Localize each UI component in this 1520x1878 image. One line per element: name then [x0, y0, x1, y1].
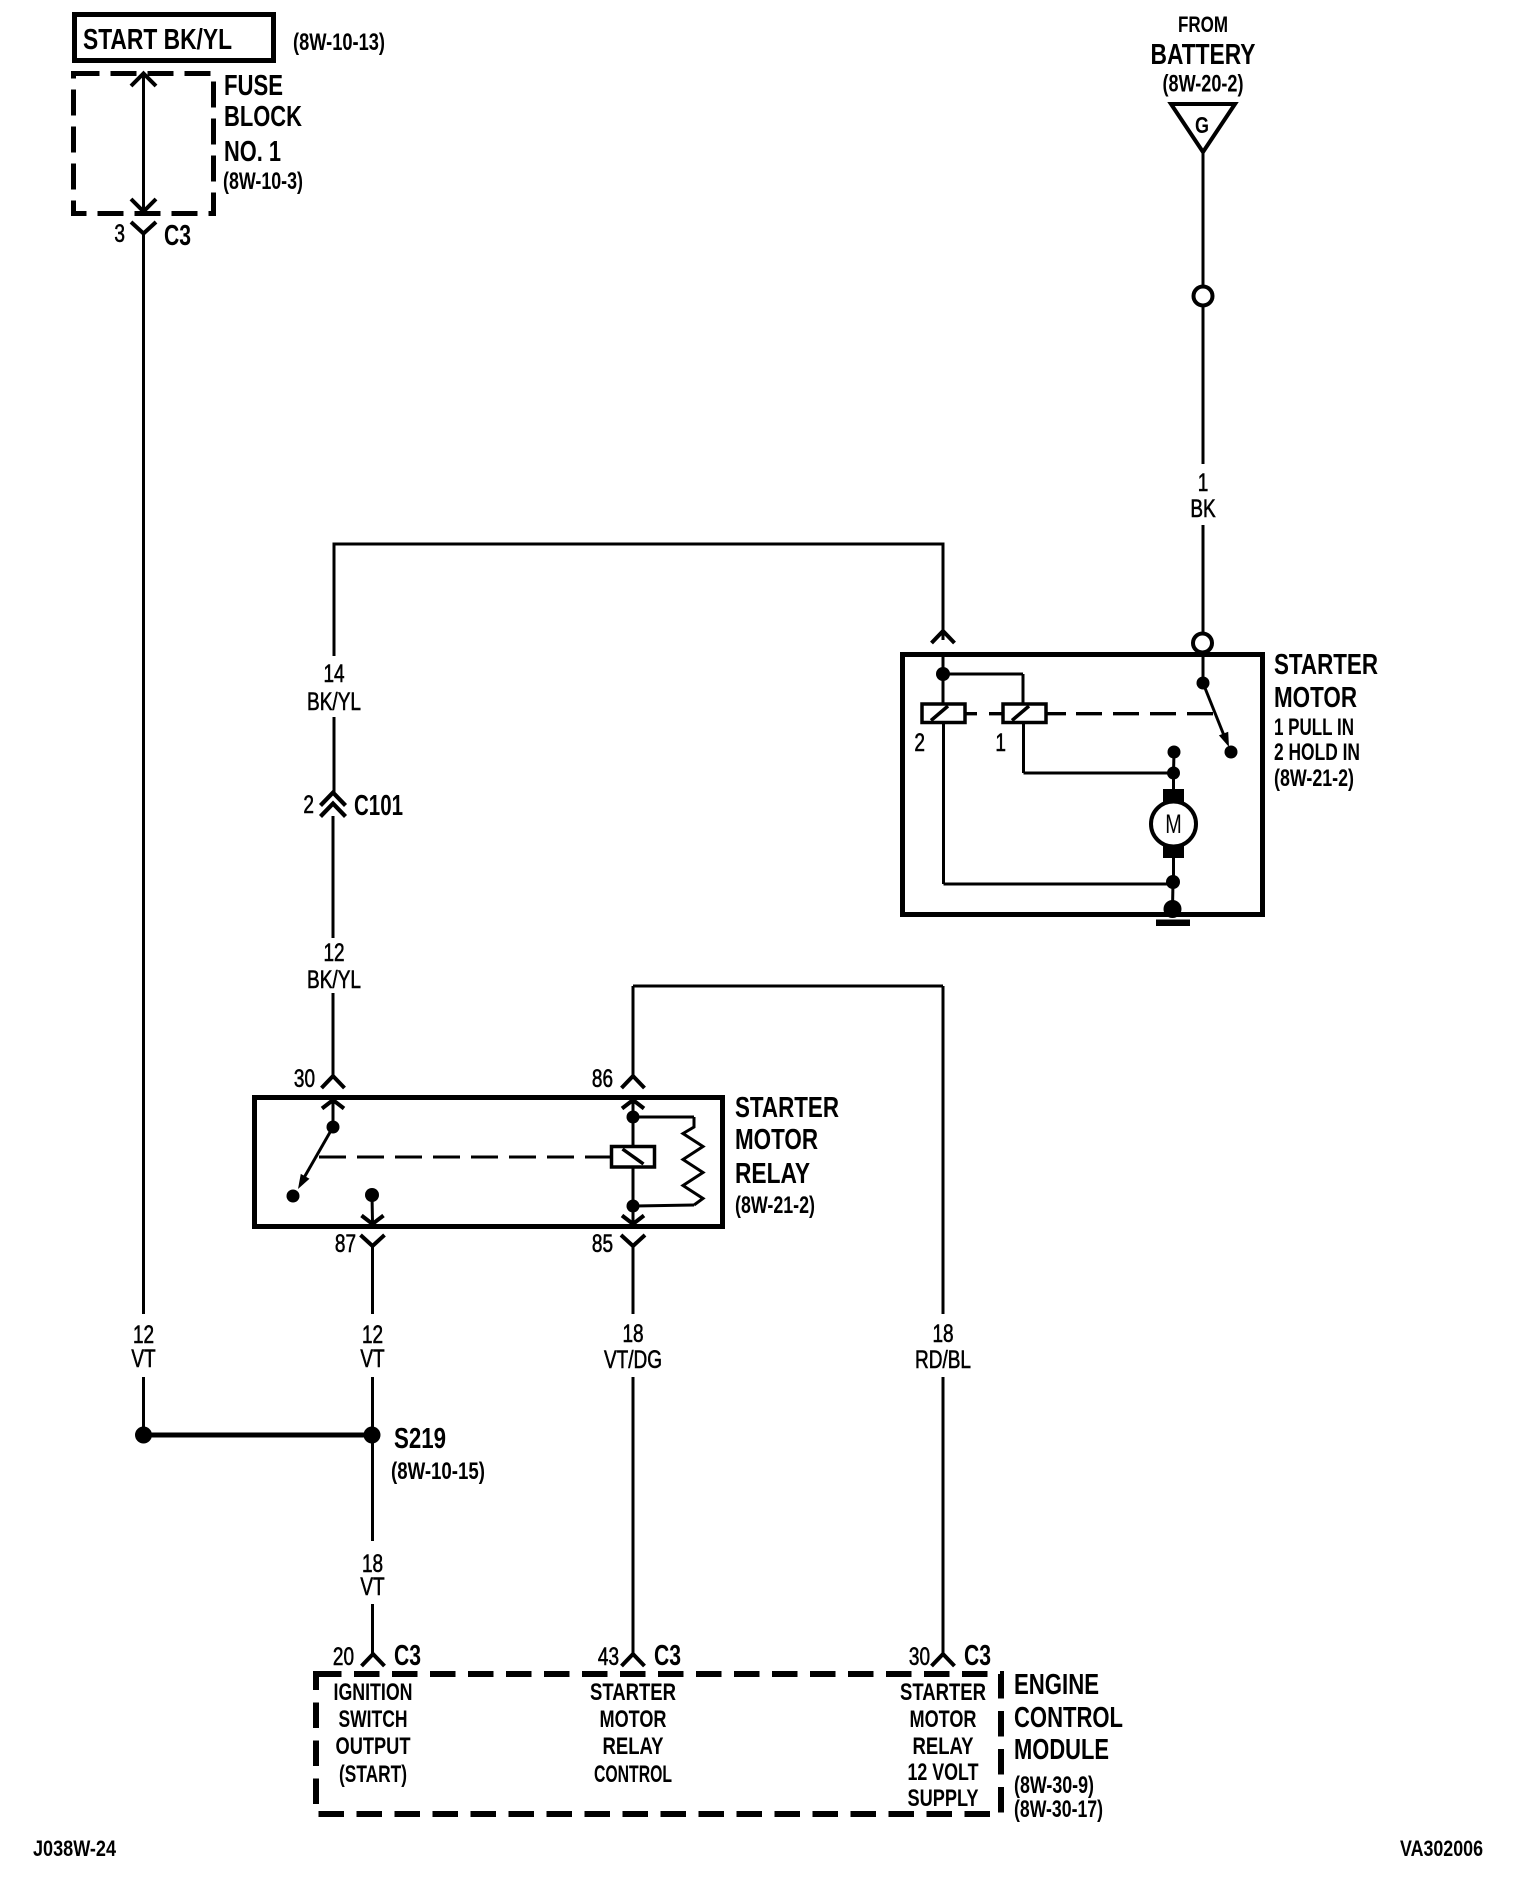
svg-text:C101: C101	[354, 790, 403, 822]
svg-text:VT: VT	[360, 1573, 384, 1601]
svg-text:STARTER: STARTER	[900, 1679, 986, 1706]
svg-text:(8W-30-17): (8W-30-17)	[1014, 1796, 1103, 1823]
wire: down into coil 2	[942, 674, 945, 704]
dashed actuator link from relay coil to switch arm	[318, 1156, 612, 1159]
svg-text:(8W-21-2): (8W-21-2)	[735, 1192, 815, 1219]
motor M brush (bottom)	[1163, 845, 1184, 858]
relay switch pivot dot	[327, 1121, 340, 1134]
svg-text:43: 43	[598, 1643, 619, 1671]
wire: continues to splice dot	[142, 1377, 145, 1430]
svg-text:MOTOR: MOTOR	[1274, 682, 1357, 714]
svg-text:BK: BK	[1190, 495, 1216, 523]
svg-text:CONTROL: CONTROL	[594, 1761, 672, 1788]
wire: battery feed down	[1202, 152, 1205, 286]
svg-text:BK/YL: BK/YL	[307, 688, 361, 716]
starter motor component box	[903, 655, 1263, 915]
wire: motor return	[1172, 858, 1175, 882]
fuse element arrow line inside fuse block	[142, 74, 145, 211]
wire: down to relay pin 30	[332, 993, 335, 1076]
splice S219 dot	[364, 1427, 381, 1444]
connector at ECM pin 20	[362, 1654, 385, 1666]
svg-text:85: 85	[592, 1230, 613, 1258]
wire: pin2 feed inside box to junction	[942, 657, 945, 674]
wire: C101 down (12 BK/YL)	[332, 816, 335, 938]
engine control module dashed box	[316, 1674, 1001, 1814]
svg-text:12: 12	[323, 939, 344, 967]
svg-text:IGNITION: IGNITION	[334, 1679, 413, 1706]
junction dot left end of S219 bus	[135, 1427, 152, 1444]
wire: coil 2 return down left side	[942, 723, 945, 885]
svg-text:(8W-10-15): (8W-10-15)	[391, 1458, 485, 1485]
svg-text:3: 3	[114, 220, 125, 248]
svg-text:ENGINE: ENGINE	[1014, 1669, 1099, 1701]
wire: down to ECM pin 30	[942, 1377, 945, 1654]
relay switch open contact dot	[287, 1190, 300, 1203]
svg-text:STARTER: STARTER	[590, 1679, 676, 1706]
connector at relay pin 86	[622, 1076, 645, 1088]
junction dot feeding both solenoid coils	[936, 667, 950, 681]
svg-text:VT: VT	[360, 1345, 384, 1373]
inline connector ring on battery wire	[1194, 287, 1213, 306]
starter motor relay component box	[255, 1098, 723, 1227]
wire: ring terminal to starter switch pivot	[1202, 653, 1205, 683]
svg-text:VT: VT	[131, 1345, 155, 1373]
svg-text:RELAY: RELAY	[603, 1733, 664, 1760]
svg-text:RELAY: RELAY	[913, 1733, 974, 1760]
svg-text:SWITCH: SWITCH	[339, 1706, 408, 1733]
connector below relay pin 87	[361, 1235, 385, 1246]
svg-text:VA302006: VA302006	[1400, 1836, 1483, 1861]
junction dot relay coil top	[627, 1111, 640, 1124]
starter switch arm	[1203, 683, 1225, 738]
wire: down to connector C101	[333, 717, 336, 793]
relay pin 87 contact dot	[365, 1188, 379, 1202]
svg-text:86: 86	[592, 1065, 613, 1093]
wire: to motor brush	[1172, 773, 1175, 790]
svg-text:STARTER: STARTER	[1274, 649, 1378, 681]
svg-text:(START): (START)	[339, 1761, 407, 1788]
svg-text:2: 2	[914, 729, 925, 757]
arrowhead at relay pin 85 (inside box)	[622, 1216, 644, 1225]
ring terminal at starter motor box	[1193, 634, 1212, 653]
svg-text:MODULE: MODULE	[1014, 1734, 1109, 1766]
motor M brush (top)	[1163, 789, 1184, 802]
wire: coil 1 return	[1022, 723, 1025, 774]
connector below relay pin 85	[621, 1235, 645, 1246]
wire: fuse block C3 pin3 down to splice (12 VT)	[142, 247, 145, 1314]
svg-text:C3: C3	[164, 220, 191, 252]
svg-text:1: 1	[1198, 469, 1209, 497]
svg-text:C3: C3	[964, 1640, 991, 1672]
svg-text:OUTPUT: OUTPUT	[336, 1733, 411, 1760]
svg-text:(8W-10-13): (8W-10-13)	[293, 29, 385, 56]
svg-text:87: 87	[335, 1230, 356, 1258]
junction dot motor return / coil2 return	[1166, 875, 1180, 889]
svg-text:RD/BL: RD/BL	[915, 1346, 971, 1374]
wire: branch to coil 1	[943, 673, 1023, 676]
svg-text:FUSE: FUSE	[224, 70, 283, 102]
connector arrow at starter motor box pin 2 feed	[932, 631, 955, 643]
wire: S219 down (18 VT)	[371, 1435, 374, 1541]
solenoid coil 1 (pull in)	[1003, 704, 1046, 723]
solenoid coil 2 (hold in)	[922, 704, 965, 723]
svg-text:M: M	[1165, 809, 1182, 839]
svg-text:BLOCK: BLOCK	[224, 101, 302, 133]
svg-text:BK/YL: BK/YL	[307, 966, 361, 994]
svg-text:FROM: FROM	[1178, 12, 1228, 37]
connector at ECM pin 43	[622, 1654, 645, 1666]
svg-text:G: G	[1195, 112, 1209, 138]
relay switch arm (to pin 87a side)	[301, 1127, 333, 1183]
svg-text:C3: C3	[394, 1640, 421, 1672]
svg-text:MOTOR: MOTOR	[735, 1124, 818, 1156]
wire: pin 86 to coil	[632, 1100, 635, 1117]
arrowhead inside relay pin 86	[622, 1100, 644, 1109]
relay coil	[612, 1147, 655, 1168]
junction dot coil1 return / motor feed	[1167, 767, 1180, 780]
power source symbol G (from battery) triangle	[1171, 104, 1235, 152]
svg-text:30: 30	[909, 1643, 930, 1671]
wire: battery feed continues	[1202, 306, 1205, 464]
wire: horizontal run from C101 branch to starter motor pin 2	[334, 543, 943, 546]
connector at ECM pin 30	[932, 1654, 955, 1666]
ground symbol at starter motor case	[1164, 900, 1182, 918]
svg-text:CONTROL: CONTROL	[1014, 1702, 1123, 1734]
suppression resistor across relay coil	[633, 1116, 694, 1119]
starter switch pivot dot	[1197, 677, 1210, 690]
fuse block no.1 dashed box	[74, 74, 214, 214]
svg-text:MOTOR: MOTOR	[910, 1706, 977, 1733]
svg-text:20: 20	[333, 1643, 354, 1671]
starter switch closed contact dot	[1225, 746, 1238, 759]
wire: ECM pin30 supply up and across to relay pin 86	[632, 986, 635, 1076]
junction dot relay coil bottom	[627, 1200, 640, 1213]
svg-text:(8W-10-3): (8W-10-3)	[223, 168, 303, 195]
arrowhead at relay pin 87 (inside box)	[362, 1216, 384, 1225]
svg-text:1 PULL IN: 1 PULL IN	[1274, 714, 1354, 741]
svg-text:NO. 1: NO. 1	[224, 136, 281, 168]
dashed mechanical link from coils to switch	[965, 712, 977, 715]
svg-text:2: 2	[303, 791, 314, 819]
wire: relay pin 87 down (12 VT)	[371, 1261, 374, 1314]
svg-text:STARTER: STARTER	[735, 1092, 839, 1124]
wire: splice bus to S219	[144, 1433, 373, 1438]
wire: relay coil bottom	[632, 1166, 635, 1206]
svg-text:(8W-20-2): (8W-20-2)	[1163, 71, 1244, 98]
svg-text:1: 1	[995, 729, 1006, 757]
svg-text:BATTERY: BATTERY	[1151, 39, 1256, 71]
wire: pin 85 down to box edge	[632, 1206, 635, 1222]
svg-text:MOTOR: MOTOR	[600, 1706, 667, 1733]
svg-text:START BK/YL: START BK/YL	[83, 24, 232, 56]
node START BK/YL feed box	[75, 15, 274, 61]
wire: pin 30 to switch pivot	[332, 1100, 335, 1127]
wire: relay pin 85 down (18 VT/DG)	[632, 1261, 635, 1314]
svg-text:(8W-21-2): (8W-21-2)	[1274, 765, 1354, 792]
connector at relay pin 30	[322, 1076, 345, 1088]
fixed contact dot to motor	[1168, 746, 1181, 759]
svg-text:SUPPLY: SUPPLY	[908, 1785, 979, 1812]
svg-text:(8W-30-9): (8W-30-9)	[1014, 1772, 1094, 1799]
svg-text:18: 18	[622, 1320, 643, 1348]
svg-text:VT/DG: VT/DG	[604, 1346, 662, 1374]
svg-text:J038W-24: J038W-24	[33, 1836, 117, 1861]
svg-text:RELAY: RELAY	[735, 1158, 810, 1190]
svg-text:12 VOLT: 12 VOLT	[908, 1759, 979, 1786]
wire: right vertical down to starter motor box	[942, 543, 945, 641]
svg-text:14: 14	[323, 660, 344, 688]
svg-text:18: 18	[932, 1320, 953, 1348]
wire: battery feed to starter motor terminal	[1202, 525, 1205, 636]
svg-text:2 HOLD IN: 2 HOLD IN	[1274, 739, 1360, 766]
svg-text:S219: S219	[394, 1423, 446, 1455]
svg-text:C3: C3	[654, 1640, 681, 1672]
wire: pin 87 down to box edge	[371, 1195, 375, 1222]
arrowhead inside relay pin 30	[322, 1100, 344, 1109]
svg-text:30: 30	[294, 1065, 315, 1093]
motor M armature circle	[1151, 802, 1196, 847]
